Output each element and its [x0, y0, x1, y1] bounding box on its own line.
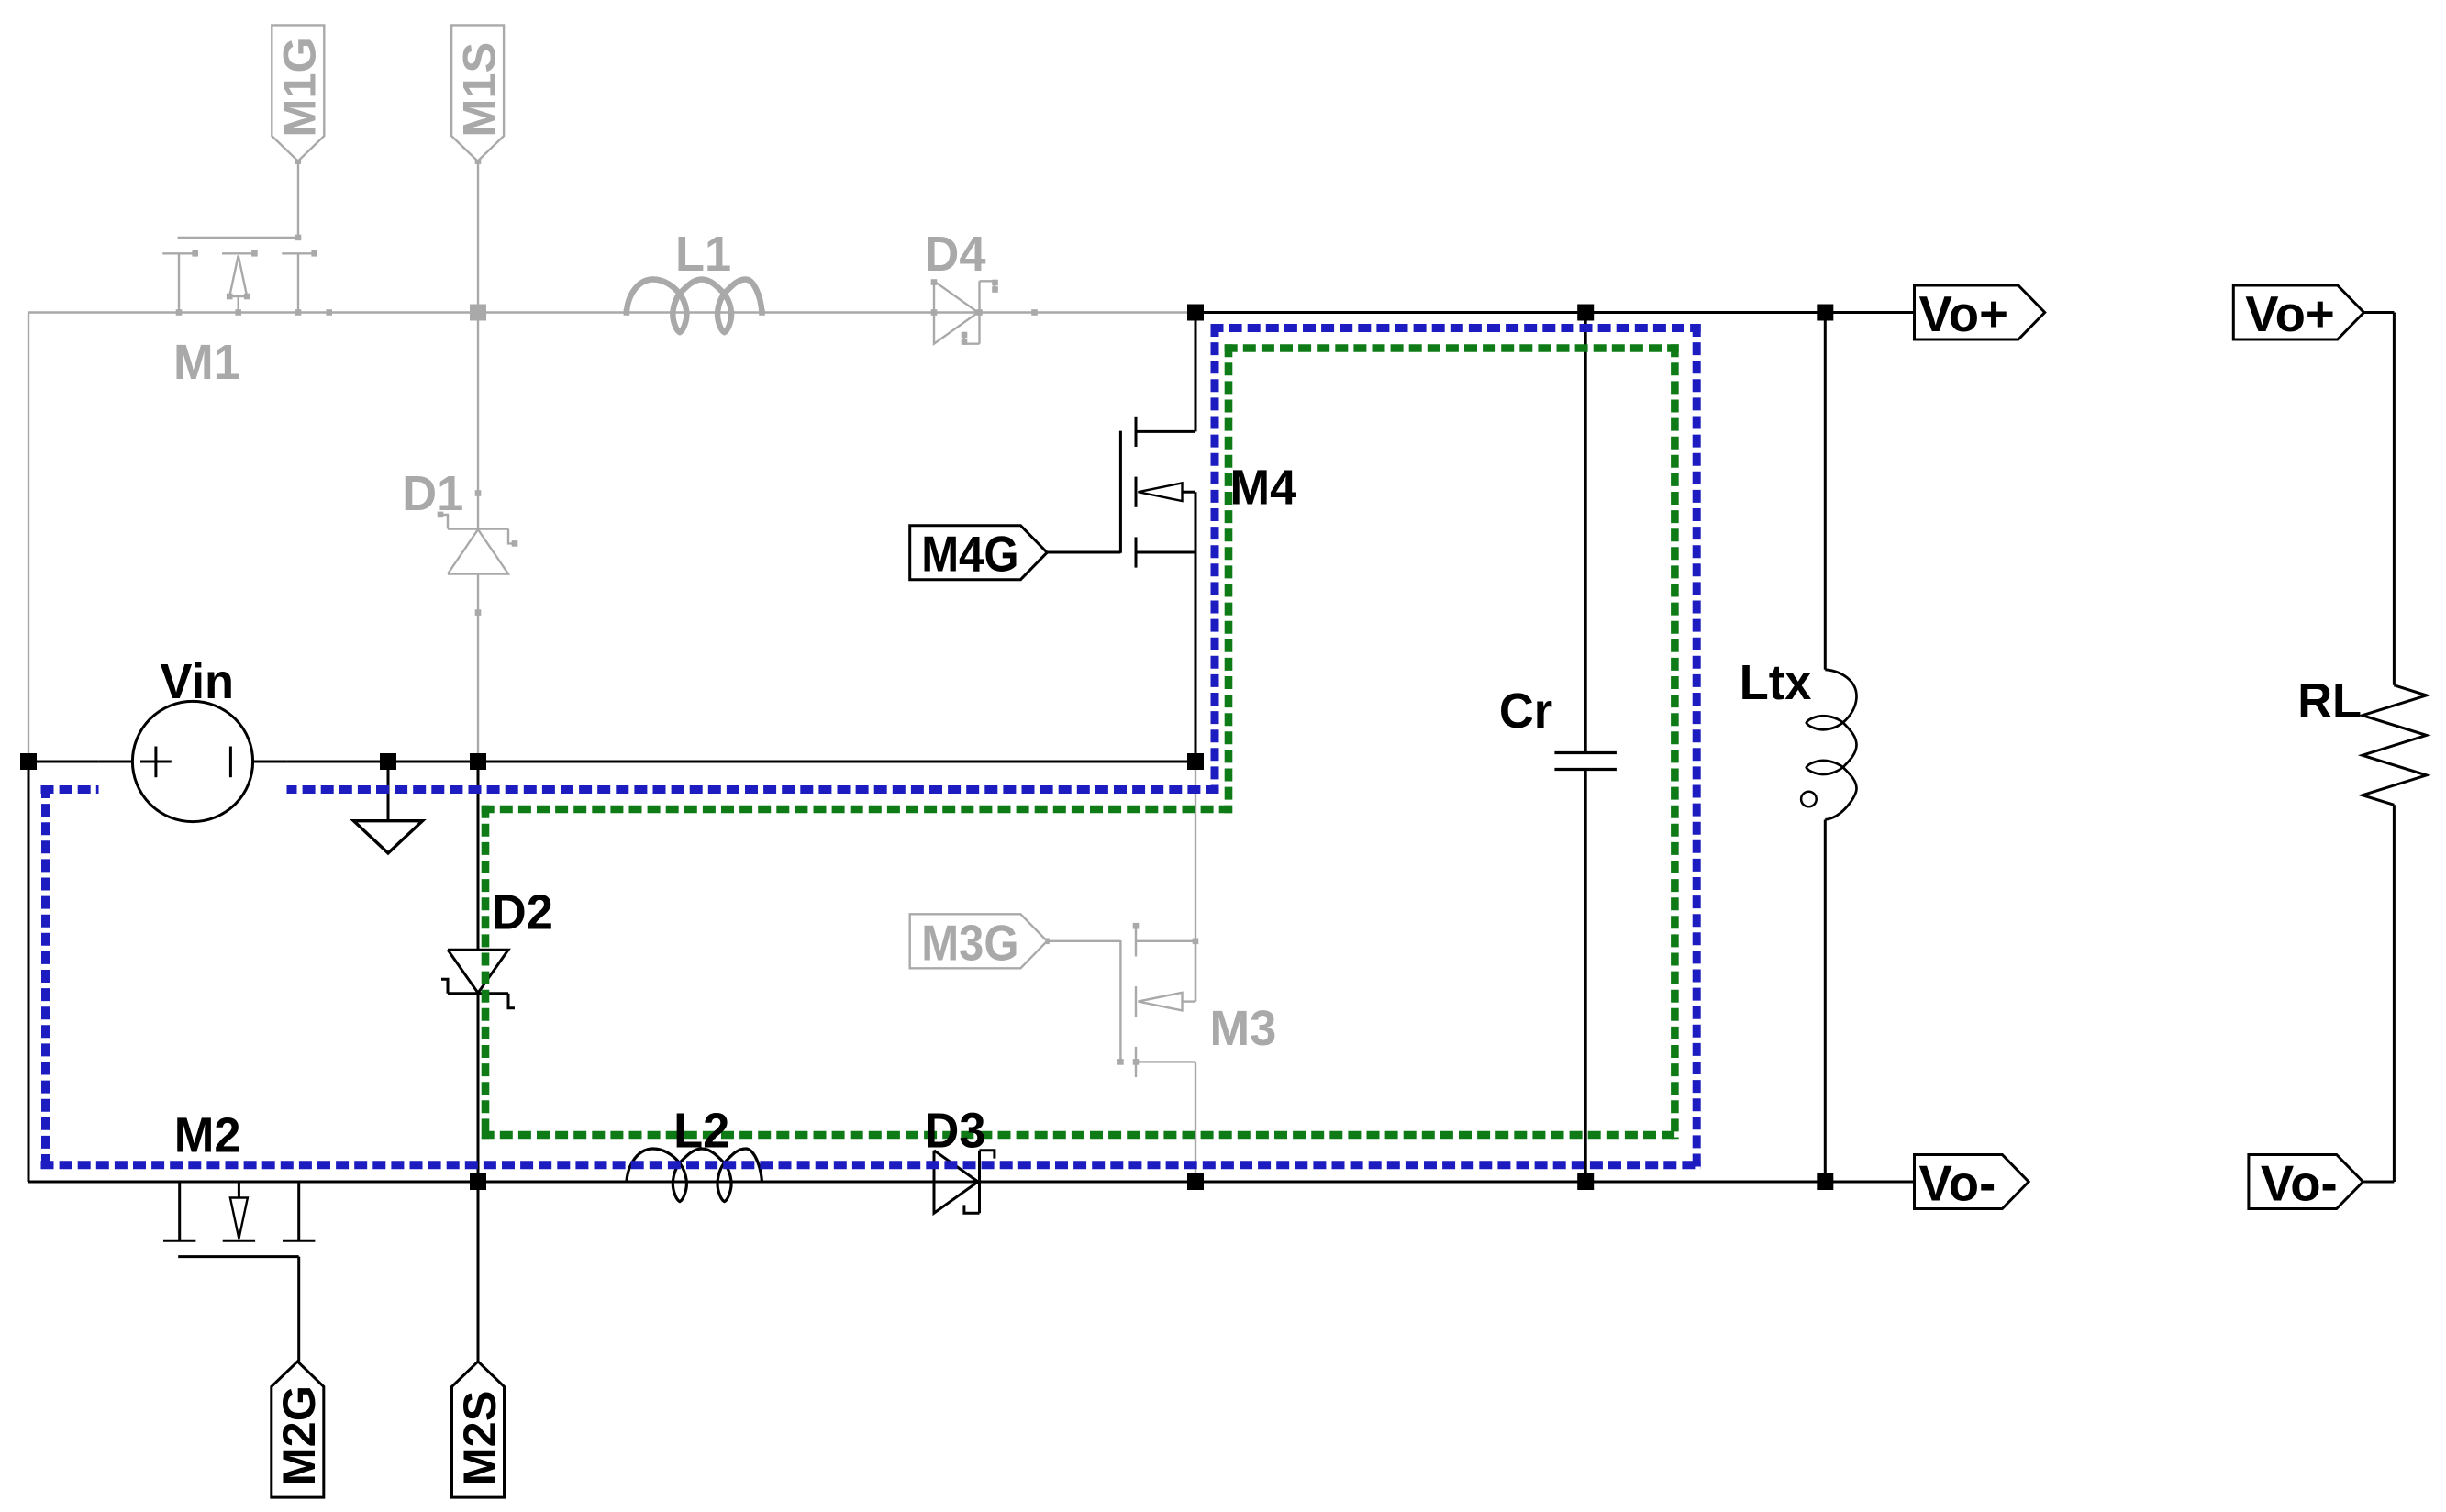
svg-text:M3G: M3G [921, 915, 1018, 971]
svg-text:Vo+: Vo+ [2245, 286, 2334, 342]
svg-text:Vo+: Vo+ [1919, 286, 2008, 342]
svg-text:M2: M2 [174, 1108, 241, 1163]
svg-text:M1S: M1S [452, 42, 505, 138]
svg-text:D3: D3 [925, 1104, 986, 1159]
svg-text:D4: D4 [925, 227, 986, 282]
svg-text:L2: L2 [673, 1104, 729, 1159]
svg-text:M3: M3 [1210, 1001, 1277, 1056]
svg-text:L1: L1 [675, 227, 731, 282]
svg-text:M1G: M1G [273, 37, 326, 137]
svg-text:Vo-: Vo- [2261, 1156, 2338, 1212]
svg-text:M2G: M2G [272, 1385, 325, 1485]
svg-text:D2: D2 [492, 885, 553, 940]
svg-text:Vo-: Vo- [1919, 1156, 1996, 1212]
svg-text:Cr: Cr [1499, 684, 1552, 739]
svg-text:M4G: M4G [921, 526, 1018, 582]
svg-text:D1: D1 [402, 466, 463, 521]
svg-text:M2S: M2S [453, 1391, 506, 1486]
svg-text:Vin: Vin [161, 654, 235, 709]
svg-text:M4: M4 [1230, 461, 1297, 516]
svg-text:Ltx: Ltx [1740, 655, 1812, 710]
svg-text:RL: RL [2297, 673, 2362, 728]
svg-text:M1: M1 [173, 335, 240, 390]
